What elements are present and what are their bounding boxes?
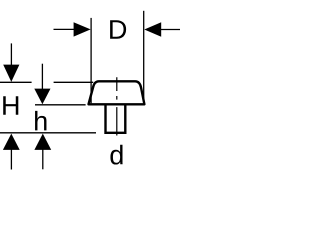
extension line D left [90, 18, 92, 103]
extension line D right [143, 11, 145, 100]
dimension arrow h bottom (up) [42, 150, 44, 170]
dimension arrow D right [161, 29, 180, 31]
extension line H top (right segment) [54, 81, 94, 83]
label d [110, 145, 122, 165]
label D [110, 20, 126, 39]
dimension arrow H top (down) [10, 43, 12, 65]
label h [35, 111, 46, 131]
label H [3, 96, 18, 115]
extension line H top (left segment) [0, 81, 32, 83]
extension line h top [35, 104, 86, 106]
dimension arrow D left [54, 28, 76, 30]
dimension arrow h top (down) [41, 64, 43, 89]
centerline [116, 77, 118, 135]
extension line baseline bottom [0, 132, 96, 134]
cap outline of plug [89, 81, 145, 104]
dimension arrow H bottom (up) [10, 150, 12, 170]
stem outline of plug [106, 105, 126, 133]
